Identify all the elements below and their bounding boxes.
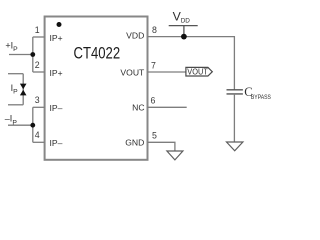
current source arrowhead up (20, 90, 27, 96)
wire pin8 VDD net (148, 37, 235, 90)
svg-text:7: 7 (151, 60, 156, 70)
wire -IP lead (8, 124, 33, 126)
wire pin6 NC stub (148, 106, 187, 108)
capacitor CBYPASS bottom plate (227, 93, 243, 95)
wire +IP lead (9, 54, 33, 56)
wire vertical IP+ bus (32, 37, 34, 72)
svg-text:+IP: +IP (5, 40, 18, 53)
VDD power bar (169, 25, 198, 27)
svg-text:CT4022: CT4022 (73, 45, 120, 63)
svg-text:IP–: IP– (50, 138, 63, 148)
wire pin5 GND (148, 142, 175, 151)
junction node VDD (181, 34, 187, 40)
svg-text:8: 8 (152, 25, 157, 35)
wire pin3 stub (33, 106, 45, 108)
svg-text:IP+: IP+ (50, 33, 63, 43)
svg-text:1: 1 (35, 25, 40, 35)
current source IP bracket top bar (8, 73, 23, 75)
svg-text:6: 6 (151, 96, 156, 106)
svg-text:3: 3 (35, 95, 40, 105)
wire vertical IP- bus (32, 107, 34, 142)
svg-text:IP+: IP+ (50, 68, 63, 78)
ground symbol (GND pin) (167, 151, 183, 160)
wire capacitor to ground (233, 94, 235, 142)
capacitor CBYPASS top plate (227, 89, 243, 91)
ground symbol (capacitor) (227, 142, 243, 151)
wire pin2 stub (33, 71, 45, 73)
svg-text:4: 4 (35, 130, 40, 140)
svg-text:BYPASS: BYPASS (251, 94, 271, 101)
svg-text:GND: GND (125, 137, 144, 147)
IC U1 body (CT4022) (45, 17, 148, 160)
svg-text:VOUT: VOUT (187, 67, 208, 76)
svg-text:DD: DD (181, 18, 191, 25)
wire pin7 VOUT (148, 71, 186, 73)
wire pin4 stub (33, 141, 45, 143)
junction node +IP (30, 52, 35, 57)
wire pin1 stub (33, 36, 45, 38)
VOUT net flag (186, 67, 212, 76)
svg-text:IP–: IP– (50, 103, 63, 113)
svg-text:5: 5 (152, 131, 157, 141)
svg-text:VDD: VDD (126, 31, 144, 41)
junction node -IP (30, 123, 35, 128)
current source IP bracket vertical (22, 74, 24, 105)
svg-text:VOUT: VOUT (120, 67, 145, 77)
svg-text:NC: NC (132, 103, 144, 113)
svg-text:IP: IP (11, 83, 19, 96)
VDD stem (183, 26, 185, 37)
pin-1 marker dot (57, 22, 62, 27)
current source arrowhead down (20, 84, 27, 90)
current source IP bracket bottom bar (8, 104, 23, 106)
svg-text:2: 2 (35, 60, 40, 70)
